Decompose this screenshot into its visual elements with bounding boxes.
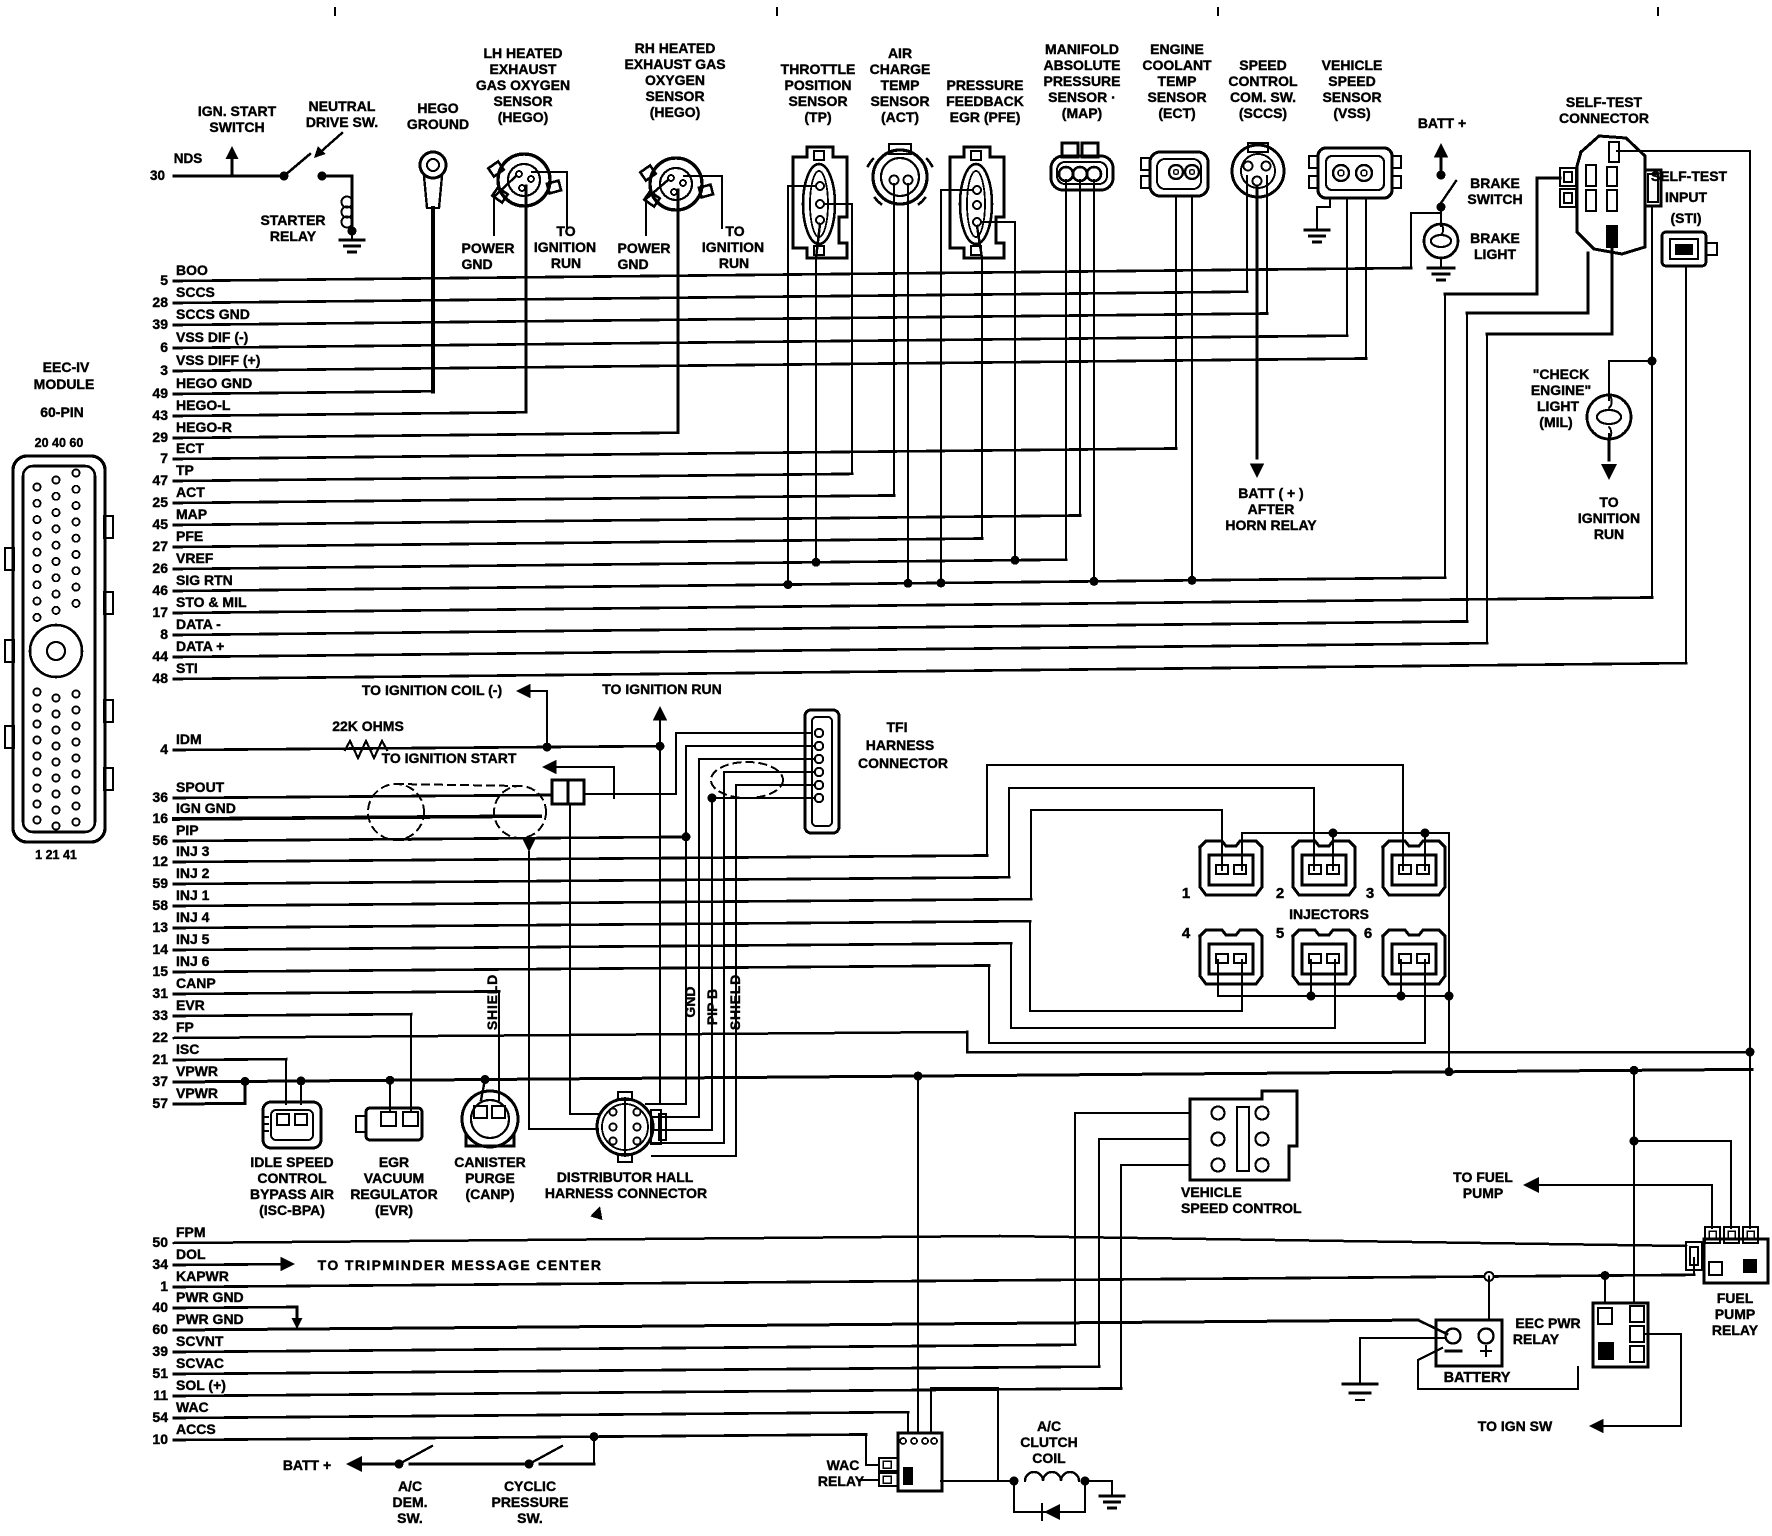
svg-text:4: 4 — [1182, 925, 1191, 942]
svg-text:SELF-TEST: SELF-TEST — [1566, 94, 1643, 110]
svg-text:1: 1 — [1182, 885, 1190, 902]
svg-text:SCVAC: SCVAC — [176, 1355, 224, 1371]
svg-text:MODULE: MODULE — [34, 376, 95, 392]
svg-text:CANP: CANP — [176, 975, 216, 991]
svg-text:INJ 5: INJ 5 — [176, 931, 210, 947]
svg-text:50: 50 — [152, 1234, 168, 1250]
svg-text:CHARGE: CHARGE — [870, 61, 931, 77]
svg-text:HARNESS CONNECTOR: HARNESS CONNECTOR — [545, 1185, 707, 1201]
svg-text:51: 51 — [152, 1365, 168, 1381]
svg-text:PRESSURE: PRESSURE — [491, 1494, 568, 1510]
svg-text:IDM: IDM — [176, 731, 202, 747]
svg-text:48: 48 — [152, 670, 168, 686]
svg-text:TO IGNITION RUN: TO IGNITION RUN — [602, 681, 722, 697]
svg-text:SENSOR: SENSOR — [1147, 89, 1206, 105]
svg-text:SW.: SW. — [517, 1510, 543, 1526]
svg-text:DRIVE SW.: DRIVE SW. — [306, 114, 378, 130]
svg-text:BATT ( + ): BATT ( + ) — [1238, 485, 1303, 501]
svg-text:33: 33 — [152, 1007, 168, 1023]
svg-text:PURGE: PURGE — [465, 1170, 515, 1186]
svg-text:SPEED: SPEED — [1328, 73, 1375, 89]
svg-text:26: 26 — [152, 560, 168, 576]
svg-text:CONNECTOR: CONNECTOR — [858, 755, 948, 771]
svg-text:45: 45 — [152, 516, 168, 532]
svg-text:BOO: BOO — [176, 262, 208, 278]
svg-text:CLUTCH: CLUTCH — [1020, 1434, 1078, 1450]
svg-text:ACT: ACT — [176, 484, 205, 500]
svg-text:3: 3 — [160, 362, 168, 378]
svg-text:PFE: PFE — [176, 528, 203, 544]
svg-text:(STI): (STI) — [1670, 210, 1701, 226]
svg-text:(ECT): (ECT) — [1158, 105, 1195, 121]
svg-text:BYPASS AIR: BYPASS AIR — [250, 1186, 334, 1202]
svg-text:NEUTRAL: NEUTRAL — [309, 98, 376, 114]
svg-text:ISC: ISC — [176, 1041, 199, 1057]
svg-text:31: 31 — [152, 985, 168, 1001]
svg-text:DATA +: DATA + — [176, 638, 224, 654]
svg-text:FP: FP — [176, 1019, 194, 1035]
svg-text:57: 57 — [152, 1095, 168, 1111]
svg-text:DOL: DOL — [176, 1246, 206, 1262]
svg-text:CONTROL: CONTROL — [1228, 73, 1298, 89]
svg-text:29: 29 — [152, 429, 168, 445]
svg-text:28: 28 — [152, 294, 168, 310]
svg-text:IGNITION: IGNITION — [1578, 510, 1640, 526]
svg-text:SPEED CONTROL: SPEED CONTROL — [1181, 1200, 1302, 1216]
svg-text:5: 5 — [1276, 925, 1284, 942]
svg-text:POSITION: POSITION — [785, 77, 852, 93]
svg-text:(ACT): (ACT) — [881, 109, 919, 125]
svg-text:VPWR: VPWR — [176, 1085, 218, 1101]
svg-text:SPOUT: SPOUT — [176, 779, 225, 795]
svg-text:RELAY: RELAY — [1712, 1322, 1759, 1338]
svg-text:COM. SW.: COM. SW. — [1230, 89, 1296, 105]
svg-text:11: 11 — [153, 1387, 168, 1403]
svg-text:2: 2 — [1276, 885, 1284, 902]
svg-text:SENSOR: SENSOR — [788, 93, 847, 109]
svg-text:20 40 60: 20 40 60 — [35, 436, 84, 450]
svg-text:CONNECTOR: CONNECTOR — [1559, 110, 1649, 126]
svg-text:14: 14 — [152, 941, 168, 957]
svg-text:GND: GND — [461, 256, 492, 272]
svg-text:40: 40 — [152, 1299, 168, 1315]
svg-text:5: 5 — [160, 272, 168, 288]
svg-text:46: 46 — [152, 582, 168, 598]
svg-text:25: 25 — [152, 494, 168, 510]
svg-text:39: 39 — [152, 316, 168, 332]
svg-text:HEGO: HEGO — [417, 100, 458, 116]
svg-text:SOL (+): SOL (+) — [176, 1377, 226, 1393]
svg-text:ENGINE: ENGINE — [1150, 41, 1204, 57]
svg-text:(VSS): (VSS) — [1333, 105, 1370, 121]
svg-text:INJ 3: INJ 3 — [176, 843, 210, 859]
svg-text:3: 3 — [1366, 885, 1374, 902]
svg-text:22K OHMS: 22K OHMS — [332, 718, 404, 734]
svg-text:INJ 1: INJ 1 — [176, 887, 210, 903]
svg-text:4: 4 — [160, 741, 168, 757]
svg-text:6: 6 — [1364, 925, 1372, 942]
svg-text:WAC: WAC — [176, 1399, 209, 1415]
svg-text:LH HEATED: LH HEATED — [483, 45, 562, 61]
svg-text:PRESSURE: PRESSURE — [946, 77, 1023, 93]
svg-text:LIGHT: LIGHT — [1537, 398, 1579, 414]
svg-text:(HEGO): (HEGO) — [498, 109, 549, 125]
svg-text:SENSOR ·: SENSOR · — [1048, 89, 1116, 105]
svg-text:TO IGNITION COIL (-): TO IGNITION COIL (-) — [362, 682, 502, 698]
svg-text:12: 12 — [152, 853, 168, 869]
svg-text:PIP: PIP — [176, 822, 199, 838]
svg-text:TO: TO — [725, 223, 744, 239]
svg-text:IDLE SPEED: IDLE SPEED — [250, 1154, 333, 1170]
svg-text:COOLANT: COOLANT — [1142, 57, 1212, 73]
svg-text:16: 16 — [152, 810, 168, 826]
svg-text:IGNITION: IGNITION — [702, 239, 764, 255]
svg-text:SHIELD: SHIELD — [484, 974, 500, 1030]
svg-text:VSS DIF (-): VSS DIF (-) — [176, 329, 248, 345]
svg-text:TEMP: TEMP — [1158, 73, 1197, 89]
svg-text:15: 15 — [152, 963, 168, 979]
svg-text:BRAKE: BRAKE — [1470, 175, 1520, 191]
svg-text:TO IGNITION START: TO IGNITION START — [382, 750, 517, 766]
svg-text:SCCS GND: SCCS GND — [176, 306, 250, 322]
svg-text:SENSOR: SENSOR — [645, 88, 704, 104]
svg-text:(ISC-BPA): (ISC-BPA) — [259, 1202, 325, 1218]
svg-text:OXYGEN: OXYGEN — [645, 72, 705, 88]
svg-text:TP: TP — [176, 462, 194, 478]
svg-text:EEC PWR: EEC PWR — [1515, 1315, 1580, 1331]
svg-text:SHIELD: SHIELD — [727, 974, 743, 1030]
svg-text:7: 7 — [160, 450, 168, 466]
svg-text:RELAY: RELAY — [818, 1473, 865, 1489]
svg-text:TO FUEL: TO FUEL — [1453, 1169, 1513, 1185]
svg-text:EXHAUST GAS: EXHAUST GAS — [624, 56, 725, 72]
svg-text:PUMP: PUMP — [1463, 1185, 1503, 1201]
svg-text:ABSOLUTE: ABSOLUTE — [1044, 57, 1121, 73]
svg-text:PRESSURE: PRESSURE — [1043, 73, 1120, 89]
svg-text:REGULATOR: REGULATOR — [350, 1186, 437, 1202]
svg-text:BATT +: BATT + — [1418, 115, 1466, 131]
svg-text:(MAP): (MAP) — [1062, 105, 1102, 121]
svg-text:CANISTER: CANISTER — [454, 1154, 526, 1170]
svg-text:49: 49 — [152, 385, 168, 401]
svg-text:SWITCH: SWITCH — [1467, 191, 1522, 207]
svg-text:CYCLIC: CYCLIC — [504, 1478, 556, 1494]
svg-text:1: 1 — [160, 1278, 168, 1294]
svg-text:SCCS: SCCS — [176, 284, 215, 300]
svg-text:34: 34 — [152, 1256, 168, 1272]
svg-text:RELAY: RELAY — [270, 228, 317, 244]
svg-text:SENSOR: SENSOR — [493, 93, 552, 109]
svg-text:39: 39 — [152, 1343, 168, 1359]
svg-text:ECT: ECT — [176, 440, 204, 456]
svg-text:56: 56 — [152, 832, 168, 848]
svg-text:"CHECK: "CHECK — [1533, 366, 1589, 382]
svg-text:RUN: RUN — [551, 255, 581, 271]
svg-text:NDS: NDS — [174, 151, 203, 166]
svg-text:TEMP: TEMP — [881, 77, 920, 93]
svg-text:VREF: VREF — [176, 550, 214, 566]
svg-text:(EVR): (EVR) — [375, 1202, 413, 1218]
svg-text:AIR: AIR — [888, 45, 912, 61]
svg-text:(CANP): (CANP) — [466, 1186, 515, 1202]
svg-text:(MIL): (MIL) — [1539, 414, 1572, 430]
svg-text:RUN: RUN — [719, 255, 749, 271]
svg-text:INJ 4: INJ 4 — [176, 909, 210, 925]
svg-text:GND: GND — [617, 256, 648, 272]
svg-text:EXHAUST: EXHAUST — [490, 61, 557, 77]
svg-text:A/C: A/C — [398, 1478, 422, 1494]
svg-text:36: 36 — [152, 789, 168, 805]
svg-text:TFI: TFI — [887, 719, 908, 735]
svg-text:DATA -: DATA - — [176, 616, 221, 632]
svg-text:LIGHT: LIGHT — [1474, 246, 1516, 262]
svg-text:PUMP: PUMP — [1715, 1306, 1755, 1322]
svg-text:VSS DIFF (+): VSS DIFF (+) — [176, 352, 260, 368]
svg-text:21: 21 — [152, 1051, 168, 1067]
svg-text:CONTROL: CONTROL — [257, 1170, 327, 1186]
svg-text:STI: STI — [176, 660, 198, 676]
svg-text:AFTER: AFTER — [1248, 501, 1295, 517]
svg-text:37: 37 — [152, 1073, 168, 1089]
svg-text:VACUUM: VACUUM — [364, 1170, 424, 1186]
svg-text:60: 60 — [152, 1321, 168, 1337]
svg-text:MAP: MAP — [176, 506, 207, 522]
svg-text:RUN: RUN — [1594, 526, 1624, 542]
svg-text:27: 27 — [152, 538, 168, 554]
svg-text:HORN RELAY: HORN RELAY — [1225, 517, 1317, 533]
svg-text:STARTER: STARTER — [260, 212, 325, 228]
svg-text:IGN GND: IGN GND — [176, 800, 236, 816]
svg-text:BATT +: BATT + — [283, 1457, 331, 1473]
svg-text:GAS OXYGEN: GAS OXYGEN — [476, 77, 570, 93]
svg-text:6: 6 — [160, 339, 168, 355]
svg-text:8: 8 — [160, 626, 168, 642]
svg-text:(TP): (TP) — [804, 109, 831, 125]
svg-text:43: 43 — [152, 407, 168, 423]
svg-text:PWR GND: PWR GND — [176, 1289, 244, 1305]
svg-text:FPM: FPM — [176, 1224, 206, 1240]
svg-text:13: 13 — [152, 919, 168, 935]
svg-text:INJECTORS: INJECTORS — [1289, 906, 1369, 922]
svg-text:TO: TO — [1599, 494, 1618, 510]
svg-text:PWR GND: PWR GND — [176, 1311, 244, 1327]
svg-text:59: 59 — [152, 875, 168, 891]
svg-text:SCVNT: SCVNT — [176, 1333, 224, 1349]
svg-text:TO TRIPMINDER MESSAGE CENTER: TO TRIPMINDER MESSAGE CENTER — [318, 1257, 603, 1273]
svg-text:(HEGO): (HEGO) — [650, 104, 701, 120]
svg-text:47: 47 — [152, 472, 168, 488]
svg-text:INJ 6: INJ 6 — [176, 953, 210, 969]
svg-text:EGR (PFE): EGR (PFE) — [950, 109, 1021, 125]
svg-text:10: 10 — [152, 1431, 168, 1447]
svg-text:IGNITION: IGNITION — [534, 239, 596, 255]
svg-text:FEEDBACK: FEEDBACK — [946, 93, 1024, 109]
svg-text:1 21 41: 1 21 41 — [35, 848, 77, 862]
svg-text:44: 44 — [152, 648, 168, 664]
svg-text:MANIFOLD: MANIFOLD — [1045, 41, 1119, 57]
svg-text:THROTTLE: THROTTLE — [781, 61, 856, 77]
svg-text:SPEED: SPEED — [1239, 57, 1286, 73]
svg-text:60-PIN: 60-PIN — [40, 404, 84, 420]
svg-text:SW.: SW. — [397, 1510, 423, 1526]
svg-text:SELF-TEST: SELF-TEST — [1651, 168, 1728, 184]
svg-text:RH HEATED: RH HEATED — [635, 40, 716, 56]
svg-text:IGN. START: IGN. START — [198, 103, 277, 119]
svg-text:EEC-IV: EEC-IV — [43, 359, 90, 375]
svg-text:ENGINE": ENGINE" — [1531, 382, 1591, 398]
svg-text:POWER: POWER — [618, 240, 671, 256]
svg-text:VEHICLE: VEHICLE — [1181, 1184, 1242, 1200]
svg-text:GROUND: GROUND — [407, 116, 469, 132]
svg-text:WAC: WAC — [827, 1457, 860, 1473]
svg-text:22: 22 — [152, 1029, 168, 1045]
svg-text:SENSOR: SENSOR — [870, 93, 929, 109]
svg-text:SENSOR: SENSOR — [1322, 89, 1381, 105]
svg-text:TO IGN SW: TO IGN SW — [1478, 1418, 1553, 1434]
svg-text:SIG RTN: SIG RTN — [176, 572, 233, 588]
svg-text:FUEL: FUEL — [1717, 1290, 1754, 1306]
svg-text:HARNESS: HARNESS — [866, 737, 934, 753]
svg-text:HEGO-R: HEGO-R — [176, 419, 232, 435]
svg-text:GND: GND — [682, 986, 698, 1017]
svg-text:DEM.: DEM. — [393, 1494, 428, 1510]
svg-text:54: 54 — [152, 1409, 168, 1425]
svg-text:A/C: A/C — [1037, 1418, 1061, 1434]
svg-text:TO: TO — [556, 223, 575, 239]
svg-text:VPWR: VPWR — [176, 1063, 218, 1079]
svg-text:VEHICLE: VEHICLE — [1322, 57, 1383, 73]
svg-text:BRAKE: BRAKE — [1470, 230, 1520, 246]
svg-text:COIL: COIL — [1032, 1450, 1066, 1466]
svg-text:DISTRIBUTOR HALL: DISTRIBUTOR HALL — [557, 1169, 694, 1185]
svg-text:POWER: POWER — [462, 240, 515, 256]
svg-text:STO & MIL: STO & MIL — [176, 594, 247, 610]
svg-text:BATTERY: BATTERY — [1444, 1370, 1511, 1386]
svg-text:HEGO-L: HEGO-L — [176, 397, 231, 413]
svg-text:INJ 2: INJ 2 — [176, 865, 210, 881]
svg-text:58: 58 — [152, 897, 168, 913]
svg-text:HEGO GND: HEGO GND — [176, 375, 252, 391]
svg-text:EGR: EGR — [379, 1154, 409, 1170]
svg-text:SWITCH: SWITCH — [209, 119, 264, 135]
svg-text:30: 30 — [150, 168, 165, 183]
svg-text:EVR: EVR — [176, 997, 205, 1013]
svg-text:(SCCS): (SCCS) — [1239, 105, 1287, 121]
svg-text:RELAY: RELAY — [1513, 1331, 1560, 1347]
svg-text:INPUT: INPUT — [1665, 189, 1707, 205]
svg-text:PIP B: PIP B — [704, 989, 720, 1025]
svg-text:ACCS: ACCS — [176, 1421, 216, 1437]
svg-text:KAPWR: KAPWR — [176, 1268, 229, 1284]
svg-text:17: 17 — [152, 604, 168, 620]
